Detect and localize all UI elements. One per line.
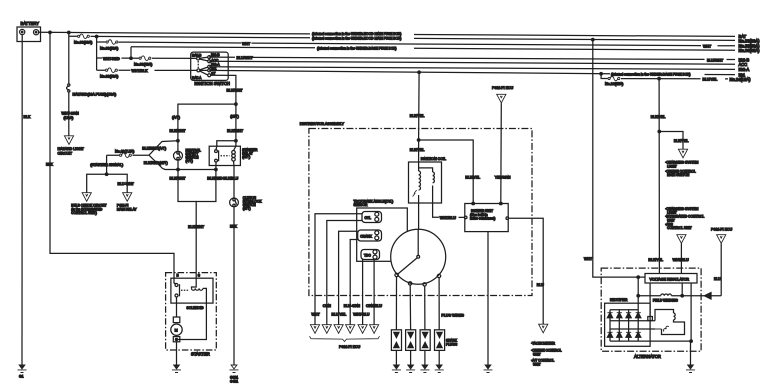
- svg-text:CRANK: CRANK: [360, 234, 372, 238]
- svg-text:UNIT: UNIT: [533, 362, 541, 366]
- junction L2 to alternator WHT: [592, 38, 595, 41]
- svg-text:WHT/BLU: WHT/BLU: [440, 216, 457, 220]
- wire BLK/YEL from IG1 to coil: [410, 72, 425, 162]
- svg-text:IG2-A: IG2-A: [211, 63, 220, 67]
- svg-text:SOLENOID: SOLENOID: [187, 306, 205, 310]
- svg-text:WHT: WHT: [703, 44, 712, 48]
- svg-text:(Internal connection in the UN: (Internal connection in the UNDER-DASH F…: [611, 73, 691, 77]
- svg-text:DISTRIBUTOR ASSEMBLY: DISTRIBUTOR ASSEMBLY: [300, 122, 345, 126]
- wire riser from L2 down through fuse rows: [96, 37, 98, 71]
- svg-text:(M/T): (M/T): [230, 115, 239, 119]
- svg-text:(M/T): (M/T): [243, 207, 251, 211]
- svg-text:ACC: ACC: [211, 58, 219, 62]
- wire BLK/BLU from relay coil: [223, 161, 238, 198]
- starter motor: [171, 284, 182, 366]
- wire BLK/YEL charging feed: [648, 79, 665, 274]
- svg-text:IG2-B: IG2-B: [211, 53, 220, 57]
- wire fused BLK/YEL line L9: [601, 74, 751, 82]
- junction IG1 to fuse No.24: [600, 72, 603, 75]
- ignition coil: [409, 157, 465, 229]
- svg-text:WHT-GRN: WHT-GRN: [62, 112, 80, 116]
- svg-text:IG1: IG1: [211, 67, 216, 71]
- svg-text:VOLTAGE REGULATOR: VOLTAGE REGULATOR: [650, 278, 690, 282]
- wire CRANK pin2 to ECU: [350, 240, 358, 325]
- svg-text:G401: G401: [230, 380, 238, 384]
- wire igniter ground lead: [487, 232, 489, 365]
- svg-text:WHT/BLU: WHT/BLU: [673, 258, 690, 262]
- solenoid: [171, 273, 213, 340]
- connector arrow tachometer: [531, 324, 562, 366]
- wire BLK to ground: [230, 207, 237, 365]
- svg-text:M: M: [175, 329, 178, 333]
- svg-text:PLUGS: PLUGS: [446, 342, 458, 346]
- svg-text:BLK/YEL: BLK/YEL: [648, 258, 663, 262]
- svg-text:BLU/YEL: BLU/YEL: [332, 312, 347, 316]
- svg-text:ALTERNATOR: ALTERNATOR: [634, 354, 661, 359]
- svg-text:BLK/YEL: BLK/YEL: [465, 176, 480, 180]
- svg-text:No.36(65A): No.36(65A): [739, 48, 761, 53]
- svg-text:WHT-RED: WHT-RED: [103, 57, 120, 61]
- svg-text:BLU/YEL: BLU/YEL: [703, 78, 718, 82]
- wire TDC pin1 to ECU: [362, 260, 364, 325]
- wire No.33(50A) bus L3: [97, 42, 760, 49]
- svg-text:BLK/BLU: BLK/BLU: [223, 176, 238, 180]
- svg-text:SENSOR: SENSOR: [354, 203, 369, 207]
- svg-text:BLK: BLK: [24, 115, 31, 119]
- svg-text:(A/T): (A/T): [172, 116, 180, 120]
- wire hazard column: [68, 33, 70, 85]
- fuse No.19(7.5A): [115, 149, 134, 157]
- svg-text:No.19(7.5A): No.19(7.5A): [115, 149, 134, 153]
- wire WHT-RED feed to BAT-B: [97, 57, 197, 61]
- wire BLK ground lead from battery: [21, 35, 23, 365]
- svg-text:·TACHOMETER: ·TACHOMETER: [531, 342, 556, 346]
- junction coil/igniter BLK/YEL: [417, 139, 480, 202]
- svg-text:STARTER: STARTER: [191, 352, 210, 357]
- svg-text:S: S: [198, 274, 201, 278]
- neutral safety switch (A/T): [174, 141, 202, 170]
- svg-text:WHT: WHT: [242, 42, 251, 46]
- wire starter signal drop and split: [87, 155, 135, 192]
- fuse HAZARD(10A FUSE)(USA): [67, 84, 117, 97]
- svg-text:PGM-FI ECU: PGM-FI ECU: [339, 345, 361, 349]
- connector arrow to bulb check circuit: [71, 193, 106, 215]
- svg-text:No.24(15A): No.24(15A): [605, 82, 623, 86]
- fuse No.30(80A): [74, 34, 92, 44]
- wire BLK/WHT(A/T) branch: [142, 139, 179, 155]
- grounds spark plugs: [392, 365, 444, 373]
- junction starter relay contact output: [215, 168, 218, 171]
- svg-text:BLK/WHT: BLK/WHT: [188, 225, 205, 229]
- wire WHT-GRN hazard lead: [62, 92, 80, 136]
- svg-text:BLK: BLK: [46, 162, 53, 166]
- ground G301 G401: [230, 365, 239, 384]
- svg-text:CONTROL UNIT): CONTROL UNIT): [71, 211, 97, 215]
- connector arrow charging light / ICU / abs: [665, 207, 704, 274]
- svg-text:No.33(40A): No.33(40A): [134, 62, 152, 66]
- svg-text:BLU: BLU: [537, 283, 544, 287]
- svg-text:CONTROL UNIT: CONTROL UNIT: [667, 226, 692, 230]
- svg-text:No.30(80A): No.30(80A): [74, 41, 92, 45]
- connector arrow charging system light / cruise: [665, 149, 699, 177]
- svg-text:ORN/BLU: ORN/BLU: [366, 304, 382, 308]
- ground alternator: [686, 365, 695, 373]
- svg-text:B: B: [177, 274, 180, 278]
- TDC/crank angle sensor box: [354, 200, 408, 262]
- plug wires: [396, 277, 464, 330]
- svg-text:No.24(15A): No.24(15A): [730, 77, 752, 82]
- starter assembly box: [166, 273, 217, 357]
- connector arrow to hazard light circuit: [58, 136, 85, 156]
- svg-text:No.33(50A): No.33(50A): [100, 46, 118, 50]
- junction bottom rail: [690, 340, 693, 343]
- svg-text:BLK/WHT: BLK/WHT: [227, 129, 244, 133]
- wire WHT alternator output: [584, 40, 645, 278]
- connector arrow PGM-FI ECU right: [711, 228, 733, 296]
- wire CYL pin1 to ECU: [315, 214, 362, 325]
- svg-text:BLU-GRN: BLU-GRN: [344, 304, 361, 308]
- wire IG1 bus L8: [209, 70, 746, 77]
- svg-text:BLU: BLU: [714, 277, 721, 281]
- svg-text:BLK/YEL: BLK/YEL: [410, 148, 425, 152]
- wire ACC bus L6: [209, 61, 747, 67]
- svg-text:ORN: ORN: [323, 304, 331, 308]
- svg-text:IGNITION COIL: IGNITION COIL: [421, 157, 446, 161]
- wire BLK starter main feed: [46, 32, 174, 283]
- igniter unit: [464, 202, 508, 231]
- svg-text:HAZARD(10A FUSE)(USA): HAZARD(10A FUSE)(USA): [73, 93, 117, 97]
- svg-text:BLK/YEL: BLK/YEL: [651, 115, 666, 119]
- svg-text:PGM-FI ECU: PGM-FI ECU: [711, 228, 733, 232]
- svg-text:BLK/WHT: BLK/WHT: [227, 88, 244, 92]
- ground starter: [172, 365, 181, 373]
- svg-text:WHT-BLU: WHT-BLU: [353, 312, 370, 316]
- voltage regulator: [645, 274, 697, 284]
- alternator box: [601, 268, 701, 359]
- spark plug 3: [420, 330, 430, 365]
- spark plug 4: [435, 330, 458, 365]
- svg-text:BLU/WHT: BLU/WHT: [707, 58, 724, 62]
- starter relay (M/T): [209, 146, 258, 165]
- wire TDC pin2 to ECU: [373, 260, 375, 325]
- PGM-FI ECU arrow to igniter: [492, 86, 514, 202]
- junction L2 to lower fuses: [95, 35, 98, 38]
- wire CRANK pin1 to ECU: [339, 231, 358, 324]
- spark plug 2: [406, 330, 416, 365]
- fuse No.32(50A): [100, 68, 118, 78]
- junction on BAT line to hazard/fuse column: [68, 31, 71, 34]
- svg-text:IGNITION SWITCH: IGNITION SWITCH: [194, 81, 230, 86]
- svg-text:(Internal connection in the UN: (Internal connection in the UNDER-HOOD M…: [312, 32, 401, 36]
- svg-text:TDC: TDC: [364, 253, 371, 257]
- ground igniter: [484, 365, 493, 373]
- svg-text:BLK/YEL: BLK/YEL: [674, 139, 689, 143]
- svg-text:BLK/YEL: BLK/YEL: [410, 114, 425, 118]
- svg-text:BLU-WHT: BLU-WHT: [118, 182, 135, 186]
- junction ST split A/T: [170, 103, 238, 141]
- svg-text:BLK: BLK: [230, 225, 237, 229]
- wire VR right pin to bottom rail: [690, 283, 692, 341]
- CRANK sensor: [358, 230, 382, 241]
- connector arrows PGM-FI ECU row: [310, 325, 378, 334]
- wire No.30 bus L2: [69, 36, 760, 43]
- junction on BAT line to starter feed: [49, 31, 52, 34]
- svg-text:YEL/GRN: YEL/GRN: [495, 176, 511, 180]
- wire BLK/WHT from NSS to starter: [170, 170, 205, 273]
- svg-text:BAT-A: BAT-A: [192, 76, 202, 80]
- wire ST output BLK/WHT: [211, 75, 244, 140]
- svg-text:WHT: WHT: [584, 257, 593, 261]
- wire field winding: [637, 283, 684, 303]
- svg-text:noise condenser): noise condenser): [470, 217, 495, 221]
- wire relay contact feed: [216, 139, 237, 150]
- svg-text:PGM-FI ECU: PGM-FI ECU: [492, 86, 514, 90]
- svg-text:BLK/RED: BLK/RED: [207, 176, 223, 180]
- stator winding: [655, 310, 685, 335]
- brace PGM-FI ECU: [310, 336, 380, 349]
- connector arrow to PGM-FI main relay: [117, 193, 138, 212]
- junction BLK/YEL branch to charging light: [658, 130, 688, 149]
- labels sensor wire colours: [312, 304, 383, 317]
- svg-text:CYL: CYL: [365, 216, 372, 220]
- svg-text:BLK/WHT: BLK/WHT: [170, 129, 187, 133]
- svg-text:LIGHT: LIGHT: [667, 164, 677, 168]
- wire CYL pin2 to ECU: [327, 221, 362, 325]
- junction IG1 to ignition coil feed: [418, 71, 421, 74]
- wire WHT/BLK feed to BAT-A: [97, 69, 197, 73]
- battery: [17, 21, 41, 42]
- distributor assembly box: [300, 122, 532, 296]
- wire IG2-A bus L7: [209, 67, 749, 72]
- clutch interlock switch (M/T): [230, 196, 263, 211]
- svg-text:MAIN RELAY: MAIN RELAY: [117, 207, 138, 211]
- spark plug 1: [391, 330, 401, 365]
- wire alternator ground lead: [690, 341, 692, 365]
- wire BLU into field winding with arrow: [682, 293, 721, 299]
- TDC sensor: [361, 250, 380, 260]
- svg-text:(A/T): (A/T): [186, 159, 193, 163]
- svg-text:PLUG WIRES: PLUG WIRES: [441, 314, 464, 318]
- wire BLU tachometer lead: [509, 218, 545, 324]
- fuse No.33(40A): [134, 56, 152, 66]
- junction NSS output on M/T rail: [177, 168, 180, 171]
- svg-text:(Internal connection in the UN: (Internal connection in the UNDER-HOOD M…: [312, 36, 401, 40]
- wire VR to brush: [648, 283, 653, 321]
- wire No.36 bus L4: [131, 46, 760, 53]
- wire BLK/RED(M/T) branch: [144, 155, 216, 169]
- svg-text:BLU/WHT: BLU/WHT: [237, 56, 254, 60]
- svg-text:No.32(50A): No.32(50A): [100, 74, 118, 78]
- svg-text:(Internal connection in the UN: (Internal connection in the UNDER-DASH F…: [317, 46, 397, 50]
- svg-text:RECTIFIER: RECTIFIER: [610, 298, 628, 302]
- svg-text:FIELD WINDING: FIELD WINDING: [653, 299, 678, 303]
- svg-text:WHT: WHT: [312, 312, 321, 316]
- junction L9 to charging BLK/YEL column: [658, 77, 661, 80]
- svg-text:BLK/RED(M/T): BLK/RED(M/T): [144, 161, 168, 165]
- distributor cap and rotor: [391, 229, 446, 286]
- junction WHT rail to rectifier: [637, 276, 640, 310]
- rectifier: [605, 298, 692, 346]
- svg-text:BATTERY: BATTERY: [21, 21, 40, 26]
- wire BLK/RED from relay contacts: [196, 162, 223, 202]
- svg-text:MAIN SWITCH: MAIN SWITCH: [667, 173, 690, 177]
- svg-text:BLK/WHT(A/T): BLK/WHT(A/T): [142, 147, 166, 151]
- svg-text:(USA): (USA): [64, 116, 74, 120]
- CYL sensor: [362, 212, 382, 223]
- svg-text:G1: G1: [19, 375, 24, 379]
- fuse No.24(15A): [605, 76, 623, 86]
- wire IG2-B bus L5: [209, 56, 749, 63]
- wire BAT bus L1: [39, 32, 747, 39]
- ground G1: [18, 365, 27, 379]
- ignition switch: [191, 52, 230, 86]
- fuse No.33(50A): [100, 40, 118, 51]
- wire starter signal feed: [90, 155, 149, 167]
- junction WHT-RED to L4 riser: [130, 47, 133, 60]
- svg-text:WHT/BLK: WHT/BLK: [132, 69, 149, 73]
- svg-text:BLK/WHT: BLK/WHT: [170, 176, 187, 180]
- svg-text:CIRCUIT: CIRCUIT: [58, 151, 73, 155]
- svg-text:(M/T): (M/T): [242, 155, 250, 159]
- svg-text:UNIT: UNIT: [533, 352, 541, 356]
